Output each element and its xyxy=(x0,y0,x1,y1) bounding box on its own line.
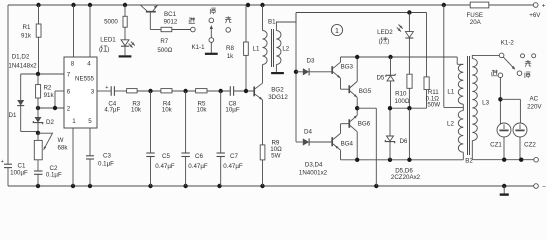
svg-text:R7: R7 xyxy=(160,38,168,45)
svg-text:BG6: BG6 xyxy=(358,120,371,127)
svg-text:7: 7 xyxy=(67,72,71,79)
svg-text:100Ω: 100Ω xyxy=(395,98,410,105)
svg-text:91k: 91k xyxy=(21,33,32,40)
svg-text:C5: C5 xyxy=(162,153,170,160)
svg-text:9012: 9012 xyxy=(164,18,178,25)
svg-text:BG4: BG4 xyxy=(341,140,354,147)
svg-text:50W: 50W xyxy=(427,102,440,109)
svg-text:W: W xyxy=(58,137,64,144)
svg-text:L1: L1 xyxy=(447,88,454,95)
svg-text:1N4001x2: 1N4001x2 xyxy=(299,169,328,176)
svg-text:NE555: NE555 xyxy=(75,75,94,82)
svg-text:): ) xyxy=(107,46,109,53)
svg-text:5000: 5000 xyxy=(104,19,118,26)
svg-text:BC1: BC1 xyxy=(164,11,177,18)
svg-text:+: + xyxy=(1,159,4,165)
svg-text:C1: C1 xyxy=(18,163,26,170)
svg-text:CZ2: CZ2 xyxy=(524,142,536,149)
svg-text:1: 1 xyxy=(335,28,339,35)
svg-text:D2: D2 xyxy=(46,119,54,126)
svg-text:K1-2: K1-2 xyxy=(501,40,515,47)
svg-text:500Ω: 500Ω xyxy=(157,47,172,54)
svg-text:D4: D4 xyxy=(304,128,312,135)
svg-text:BG5: BG5 xyxy=(359,88,372,95)
svg-text:10k: 10k xyxy=(197,107,208,114)
svg-text:1N4148x2: 1N4148x2 xyxy=(8,63,37,70)
svg-text:L3: L3 xyxy=(482,100,489,107)
svg-text:0.1µF: 0.1µF xyxy=(98,161,114,168)
svg-text:0.47µF: 0.47µF xyxy=(188,163,208,170)
svg-text:4: 4 xyxy=(87,61,91,68)
svg-text:3: 3 xyxy=(91,89,95,96)
svg-text:R8: R8 xyxy=(226,45,234,52)
svg-text:10µF: 10µF xyxy=(225,107,239,114)
svg-text:R10: R10 xyxy=(395,91,407,98)
svg-text:1: 1 xyxy=(72,118,76,125)
svg-text:4.7µF: 4.7µF xyxy=(104,107,120,114)
svg-text:L2: L2 xyxy=(282,46,289,53)
svg-text:2: 2 xyxy=(67,106,71,113)
svg-text:+6V: +6V xyxy=(529,12,541,19)
svg-text:D5: D5 xyxy=(376,74,384,81)
svg-text:D6: D6 xyxy=(399,138,407,145)
svg-text:+: + xyxy=(105,85,108,91)
svg-text:91k: 91k xyxy=(44,92,55,99)
svg-text:0.47µF: 0.47µF xyxy=(223,163,243,170)
svg-text:FUSE: FUSE xyxy=(467,12,484,19)
svg-text:C6: C6 xyxy=(195,153,203,160)
svg-text:1k: 1k xyxy=(227,53,234,60)
svg-text:L2: L2 xyxy=(447,120,454,127)
svg-text:10k: 10k xyxy=(162,107,173,114)
svg-text:C7: C7 xyxy=(230,153,238,160)
svg-text:3DG12: 3DG12 xyxy=(268,94,288,101)
svg-text:2CZ20Ax2: 2CZ20Ax2 xyxy=(391,174,421,181)
svg-text:): ) xyxy=(387,38,389,45)
svg-text:+: + xyxy=(542,2,546,9)
svg-text:100µF: 100µF xyxy=(10,170,28,177)
svg-text:10k: 10k xyxy=(131,107,142,114)
svg-text:68k: 68k xyxy=(58,144,69,151)
svg-text:CZ1: CZ1 xyxy=(490,142,502,149)
svg-text:C3: C3 xyxy=(103,153,111,160)
svg-text:LED1: LED1 xyxy=(100,37,116,44)
svg-text:D1: D1 xyxy=(9,112,17,119)
svg-text:R1: R1 xyxy=(23,24,31,31)
svg-text:5: 5 xyxy=(88,118,92,125)
svg-text:B1: B1 xyxy=(268,19,276,26)
svg-text:8: 8 xyxy=(71,61,75,68)
svg-text:D3,D4: D3,D4 xyxy=(305,162,323,169)
svg-text:0.1µF: 0.1µF xyxy=(46,172,62,179)
svg-text:K1-1: K1-1 xyxy=(191,44,205,51)
svg-text:R2: R2 xyxy=(43,84,51,91)
svg-text:6: 6 xyxy=(67,89,71,96)
svg-text:220V: 220V xyxy=(527,104,542,111)
svg-text:20A: 20A xyxy=(470,19,482,26)
svg-text:−: − xyxy=(542,183,546,190)
svg-text:BG2: BG2 xyxy=(271,87,284,94)
svg-text:D3: D3 xyxy=(307,57,315,64)
svg-text:AC: AC xyxy=(529,96,538,103)
svg-text:BG3: BG3 xyxy=(341,64,354,71)
svg-text:0.47µF: 0.47µF xyxy=(155,163,175,170)
svg-text:5W: 5W xyxy=(271,153,280,160)
svg-text:L1: L1 xyxy=(253,46,260,53)
svg-text:LED2: LED2 xyxy=(377,29,393,36)
svg-text:D1,D2: D1,D2 xyxy=(12,54,30,61)
